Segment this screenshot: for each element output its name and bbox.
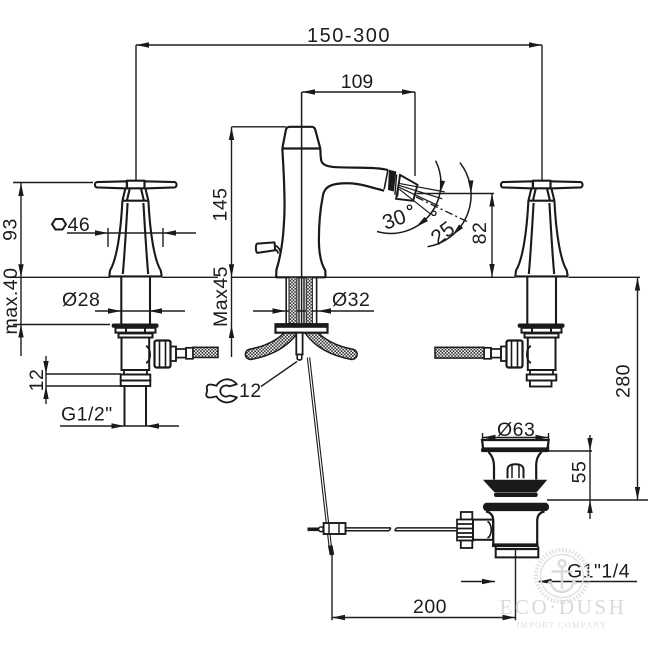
svg-text:109: 109 (341, 71, 374, 93)
svg-text:12: 12 (26, 369, 48, 392)
svg-text:93: 93 (0, 218, 22, 241)
svg-text:Max45: Max45 (210, 266, 232, 327)
svg-text:200: 200 (413, 596, 447, 618)
svg-text:280: 280 (613, 364, 635, 398)
svg-text:IMPORT COMPANY: IMPORT COMPANY (517, 621, 608, 630)
svg-text:55: 55 (569, 461, 591, 484)
svg-text:Ø28: Ø28 (62, 289, 100, 311)
svg-text:150-300: 150-300 (307, 25, 391, 47)
svg-text:G1"1/4: G1"1/4 (567, 561, 630, 583)
svg-text:82: 82 (469, 222, 491, 245)
svg-text:G1/2": G1/2" (61, 404, 113, 426)
svg-text:ECO·DUSH: ECO·DUSH (500, 595, 627, 619)
svg-text:46: 46 (68, 214, 91, 236)
svg-text:Ø63: Ø63 (497, 419, 535, 441)
svg-text:max.40: max.40 (0, 268, 22, 335)
svg-text:12: 12 (239, 380, 262, 402)
svg-text:145: 145 (210, 187, 232, 221)
svg-text:Ø32: Ø32 (332, 289, 370, 311)
